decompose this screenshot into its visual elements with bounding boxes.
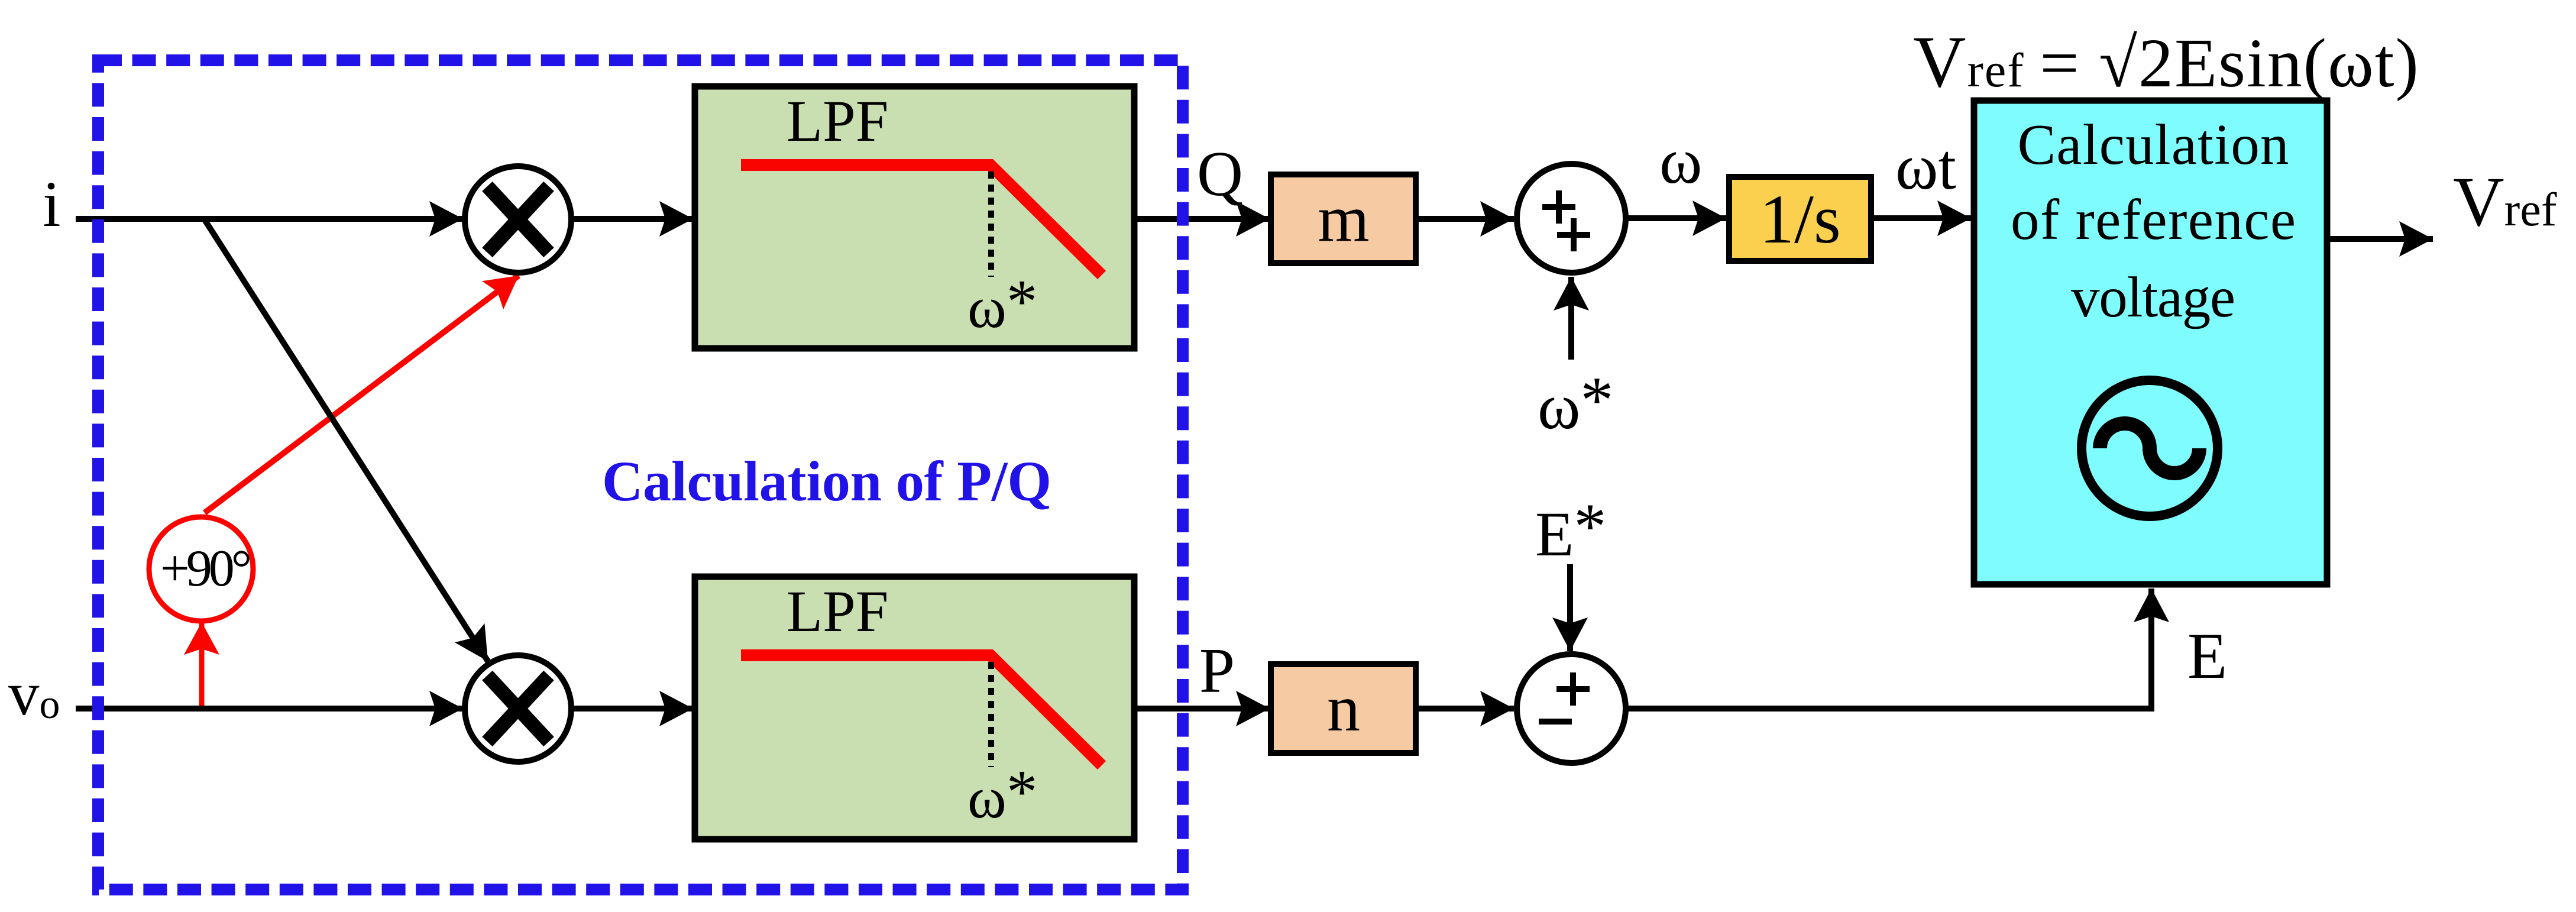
- svg-text:+90°: +90°: [160, 540, 252, 597]
- wire block output: [2329, 236, 2433, 242]
- feedback wire E to calculation block: [1626, 588, 2151, 709]
- svg-text:Q: Q: [1197, 139, 1243, 209]
- svg-text:n: n: [1327, 672, 1360, 745]
- svg-text:LPF: LPF: [787, 88, 888, 154]
- wire multiplier1 to LPF1: [571, 216, 693, 222]
- multiplier X2: [465, 655, 571, 762]
- wire n to sum2: [1416, 706, 1514, 712]
- summing junction 2: [1517, 654, 1626, 763]
- svg-text:E: E: [2187, 620, 2227, 692]
- svg-text:P: P: [1199, 636, 1235, 706]
- wire sum1 to integrator, node omega: [1626, 215, 1726, 221]
- omega* reference input to sum1: [1568, 277, 1574, 360]
- wire vo: [76, 706, 463, 712]
- svg-text:Vref = √2Esin(ωt): Vref = √2Esin(ωt): [1913, 21, 2420, 102]
- summing junction 1: [1517, 164, 1626, 273]
- multiplier X1: [465, 166, 571, 273]
- svg-text:ω: ω: [1659, 125, 1702, 197]
- LPF block 1: [695, 86, 1134, 348]
- sine source symbol: [2082, 380, 2218, 516]
- wire cross branch to multiplier 2: [204, 219, 488, 661]
- svg-text:E*: E*: [1535, 490, 1606, 570]
- svg-text:of reference: of reference: [2011, 188, 2296, 251]
- svg-text:vo: vo: [8, 659, 60, 728]
- wire multiplier2 to LPF2: [571, 706, 693, 712]
- wire m to sum1: [1416, 216, 1514, 222]
- E* reference input to sum2: [1567, 564, 1573, 651]
- red arrow vo to phase shifter: [199, 622, 205, 709]
- wire i: [76, 216, 463, 222]
- svg-text:Calculation of P/Q: Calculation of P/Q: [602, 449, 1051, 513]
- svg-text:m: m: [1318, 182, 1369, 256]
- phase shift circle +90: [149, 517, 253, 621]
- svg-text:Vref: Vref: [2453, 162, 2557, 241]
- gain block m: [1271, 174, 1416, 263]
- svg-text:ω*: ω*: [1538, 364, 1613, 442]
- integrator block 1/s: [1729, 177, 1871, 261]
- calculation of reference voltage block: [1974, 101, 2327, 584]
- svg-text:Calculation: Calculation: [2018, 113, 2289, 176]
- svg-text:ω*: ω*: [967, 267, 1037, 340]
- wire integrator to calculation block, node omega-t: [1871, 215, 1971, 221]
- svg-text:i: i: [43, 168, 61, 240]
- dashed calculation box: [98, 60, 1183, 890]
- LPF block 2: [695, 577, 1134, 839]
- wire LPF1 to m: [1134, 216, 1270, 222]
- gain block n: [1271, 664, 1416, 753]
- svg-text:1/s: 1/s: [1759, 180, 1841, 258]
- red arrow phase shifter to multiplier 1: [205, 276, 519, 513]
- svg-text:LPF: LPF: [787, 578, 888, 644]
- svg-text:voltage: voltage: [2071, 266, 2235, 329]
- wire LPF2 to n: [1134, 706, 1270, 712]
- svg-text:ω*: ω*: [967, 757, 1037, 830]
- svg-text:ωt: ωt: [1895, 131, 1956, 203]
